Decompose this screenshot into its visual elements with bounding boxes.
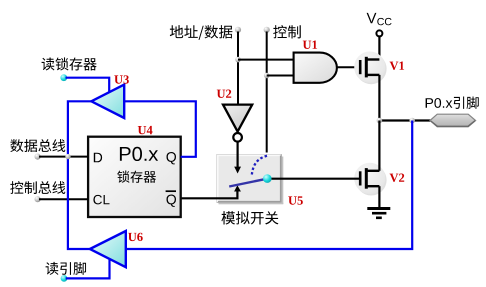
wire control bus to pin CL — [39, 198, 88, 200]
junction address/data branch — [235, 57, 241, 63]
pin D label — [94, 153, 102, 163]
wire read-latch control to U3 — [66, 78, 110, 93]
label U1 — [303, 41, 317, 49]
node read-latch terminal (cyan) — [60, 74, 67, 81]
wire V2 drain to output node — [378, 121, 380, 171]
wire data bus to pin D — [39, 156, 88, 158]
switch lever — [229, 179, 267, 187]
wire U6 input from P0.x pin node (blue) — [126, 121, 412, 250]
inverter U2 — [223, 105, 252, 142]
label P0.x (latch title) — [120, 147, 158, 161]
wire VCC to V1 drain — [378, 36, 380, 59]
node control bus terminal — [35, 196, 41, 202]
power VCC label — [367, 13, 377, 23]
label U2 — [217, 90, 231, 98]
switch control dotted curve — [252, 156, 267, 177]
wire address/data vertical to U2 input — [237, 32, 239, 104]
wire internal data bus rail (blue) — [68, 101, 91, 249]
node data bus terminal — [35, 154, 41, 160]
buffer U6 (read pin) — [90, 231, 126, 267]
wire output node horizontal — [379, 119, 431, 121]
switch common ball — [263, 174, 272, 183]
node 地址/数据 terminal — [235, 27, 241, 33]
power VCC terminal — [376, 30, 382, 36]
pin CL label — [93, 195, 109, 205]
ground — [367, 209, 390, 218]
label V1 — [390, 62, 405, 70]
junction output node / FET rail — [377, 118, 383, 124]
wire control vertical to analog switch — [266, 32, 268, 153]
label 模拟开关 (analog switch) — [221, 211, 278, 224]
label 读引脚 (read pin) — [46, 262, 86, 275]
wire U3 input from latch Q — [124, 101, 196, 157]
label 地址/数据 (address/data) — [170, 25, 233, 40]
wire latch Qbar to switch (up arrow) — [181, 185, 241, 198]
wire control branch to U1 input B — [267, 75, 294, 77]
label U5 — [288, 196, 303, 204]
wire U2 output into analog switch (arrow) — [234, 142, 241, 174]
wire V1 source to output node — [378, 75, 380, 121]
junction bus rail / pin D — [65, 154, 70, 159]
wire V2 source to ground — [378, 186, 380, 208]
label 控制总线 (control bus) — [10, 181, 65, 194]
label 数据总线 (data bus) — [10, 139, 65, 152]
label 读锁存器 (read latch) — [42, 57, 97, 70]
wire switch output to V2 gate — [272, 178, 360, 180]
connector P0.x pin pad — [430, 114, 476, 127]
junction control branch — [264, 73, 270, 79]
node read-pin terminal (cyan) — [61, 275, 68, 282]
label U3 — [114, 75, 129, 83]
and-gate U1 — [294, 53, 337, 83]
buffer U3 (read latch) — [91, 85, 124, 118]
label P0.x引脚 — [426, 98, 453, 108]
label U6 — [128, 233, 143, 241]
latch U4 box — [88, 137, 181, 217]
analog switch U5 box — [217, 155, 283, 205]
label 锁存器 (latch) — [117, 171, 156, 183]
transistor V1 (upper FET) — [354, 52, 386, 85]
label V2 — [390, 174, 405, 182]
transistor V2 (lower FET) — [354, 163, 386, 196]
pin Qbar label — [167, 195, 177, 207]
label 控制 (control) — [273, 25, 301, 38]
junction output node / read-pin drop — [409, 118, 415, 124]
pin Q label — [167, 152, 177, 164]
wire U1 output to V1 gate — [337, 66, 360, 68]
node 控制 terminal — [264, 27, 270, 33]
wire read-pin control to U6 — [66, 260, 110, 279]
label U4 — [138, 126, 153, 134]
wire address/data branch to U1 input A — [238, 59, 294, 61]
